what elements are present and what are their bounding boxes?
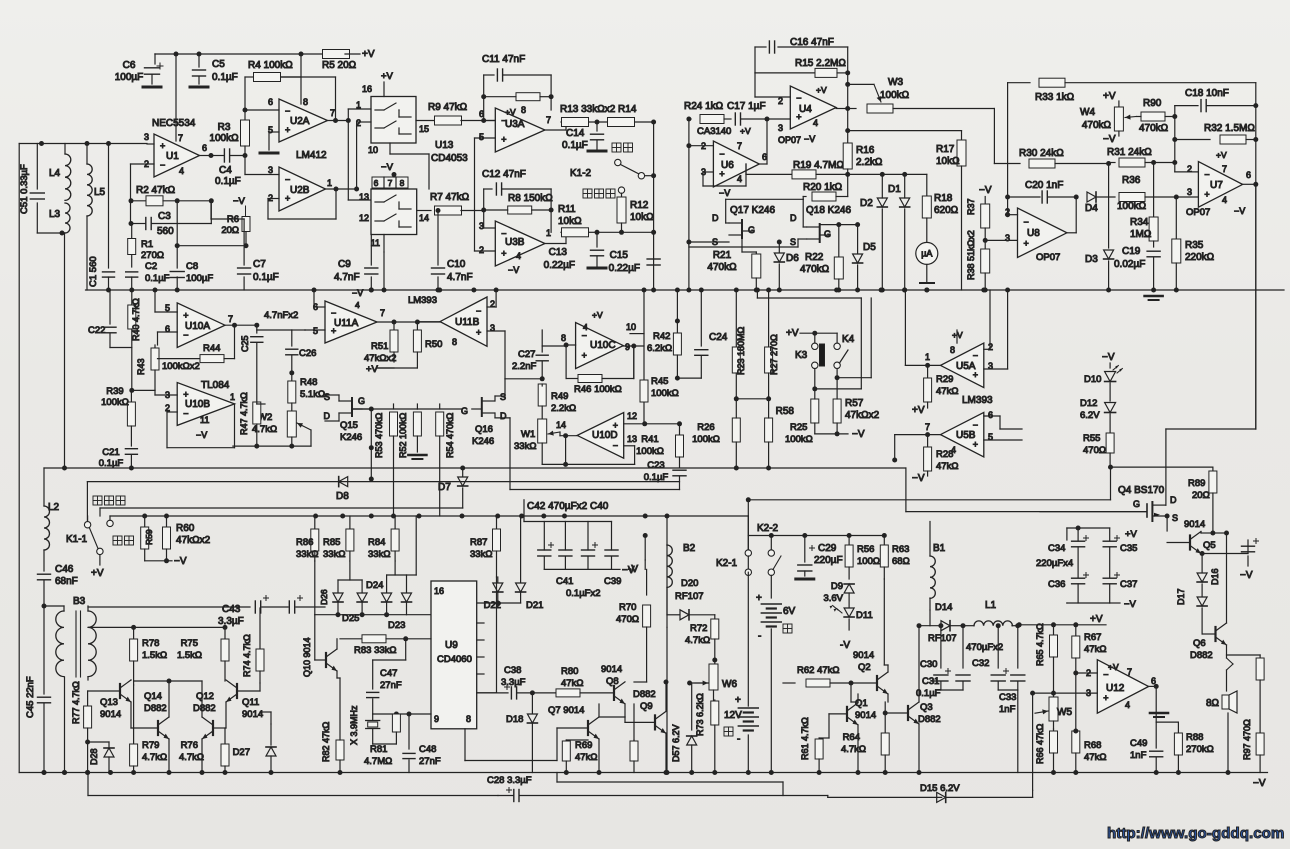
wire [356,122,358,189]
svg-text:D8: D8 [336,491,349,502]
transistor Q2 [876,676,878,690]
svg-text:C28 3.3µF: C28 3.3µF [487,775,532,786]
wire [1201,553,1248,555]
svg-text:K4: K4 [842,334,855,345]
svg-text:R15 2.2MΩ: R15 2.2MΩ [795,58,846,69]
junction [129,288,134,293]
wire [759,163,767,165]
svg-text:0.22µF: 0.22µF [544,260,575,271]
junction [675,288,680,293]
svg-text:12V: 12V [724,710,742,721]
resistor R28 [927,435,929,448]
svg-text:5.1kΩ: 5.1kΩ [300,389,325,400]
svg-text:Q4 BS170: Q4 BS170 [1118,485,1165,496]
svg-text:−: − [719,149,724,159]
svg-text:5: 5 [313,326,318,336]
svg-text:C1 560: C1 560 [88,256,99,287]
capacitor C19 [1147,250,1160,252]
wire [158,331,178,333]
wire [918,626,920,702]
svg-text:7: 7 [1127,667,1132,677]
svg-text:R57: R57 [845,398,864,409]
svg-text:C34: C34 [1048,543,1065,554]
wire [477,602,521,604]
svg-text:W3: W3 [888,77,903,88]
svg-text:Q2: Q2 [858,662,871,673]
svg-text:C23: C23 [647,460,664,471]
resistor R35 [1175,197,1177,240]
resistor R14 [608,118,635,127]
junction [562,514,567,519]
junction [460,514,465,519]
svg-text:3.3µF: 3.3µF [218,616,244,627]
svg-text:0.1µF: 0.1µF [916,688,941,699]
wire [598,739,600,773]
wire squiggle [1226,645,1228,658]
svg-text:+V: +V [592,310,603,320]
svg-text:6.2kΩ: 6.2kΩ [647,343,672,354]
wire [1149,685,1157,687]
wire [836,108,848,110]
wire pin10 [630,333,644,335]
svg-text:4: 4 [355,300,360,310]
svg-text:20Ω: 20Ω [1192,490,1210,501]
svg-text:−: − [1024,217,1029,227]
wire [557,781,783,783]
svg-text:OP07: OP07 [1036,252,1060,263]
svg-text:C49: C49 [1130,738,1147,749]
capacitor C28 [513,790,515,802]
svg-text:620Ω: 620Ω [934,205,959,216]
resistor R56 [848,536,850,546]
svg-text:47kΩx2: 47kΩx2 [364,353,396,364]
resistor R97 [1259,655,1261,658]
svg-text:C10: C10 [447,259,466,270]
wire [167,411,177,413]
junction [879,288,884,293]
resistor R15 [755,72,816,74]
svg-text:R79: R79 [142,740,159,751]
svg-text:Q9: Q9 [640,701,653,712]
wire [64,677,66,773]
resistor R72 [714,615,716,618]
capacitor C38 [477,692,508,694]
resistor R40 [131,290,133,304]
svg-text:R76: R76 [181,740,198,751]
svg-text:33kΩ: 33kΩ [514,441,536,452]
svg-text:7: 7 [1222,164,1227,174]
svg-text:C20 1nF: C20 1nF [1025,180,1063,191]
svg-text:Q11: Q11 [242,697,259,708]
wire [292,329,305,331]
svg-text:11: 11 [371,238,380,248]
svg-text:−V: −V [979,185,992,196]
svg-text:Q12: Q12 [196,691,214,702]
svg-text:C17 1µF: C17 1µF [727,101,766,112]
svg-text:G: G [358,396,365,406]
diode D16 [1197,573,1207,582]
svg-text:R25: R25 [790,422,807,433]
wire [133,681,135,685]
transistor Q16 K246 [481,398,483,416]
wire [483,97,485,121]
svg-text:−: − [285,106,290,116]
svg-text:100kΩ: 100kΩ [101,397,129,408]
svg-text:33kΩ: 33kΩ [323,549,345,560]
svg-text:+V: +V [505,107,516,117]
resistor R39 [130,390,132,402]
resistor R36 [1097,196,1115,198]
svg-text:8Ω: 8Ω [1206,698,1220,709]
svg-text:+V: +V [912,405,925,416]
potentiometer W1 [538,419,547,443]
svg-text:R78: R78 [142,638,159,649]
junction [643,514,648,519]
svg-text:W5: W5 [1057,707,1072,718]
wire [19,143,147,145]
resistor R4 [245,76,259,78]
svg-text:R68: R68 [1084,740,1101,751]
svg-text:8: 8 [950,345,955,355]
svg-text:+: + [613,420,618,430]
svg-text:R47 4.7kΩ: R47 4.7kΩ [239,392,249,435]
wire [175,54,177,141]
net -V [145,560,167,562]
svg-text:L3: L3 [49,209,61,220]
svg-text:−V: −V [233,196,246,207]
wire [690,682,715,684]
wire [984,368,1008,370]
wire [383,252,385,290]
junction [981,288,986,293]
wire [566,344,576,346]
wire [300,54,302,104]
wire U7 to Q4 [1166,428,1256,430]
svg-text:D9: D9 [831,581,843,592]
svg-text:4.7kΩ: 4.7kΩ [142,752,167,763]
svg-text:+: + [183,310,188,320]
resistor R32 [1175,139,1210,141]
wire [87,606,89,611]
svg-text:+: + [1204,189,1209,199]
svg-text:9: 9 [625,342,630,352]
wire [338,413,340,421]
svg-text:Q8: Q8 [606,676,619,687]
svg-text:−V: −V [1124,599,1137,610]
svg-text:+V: +V [1103,91,1116,102]
resistor R7 [417,210,431,212]
svg-text:47kΩ: 47kΩ [1084,752,1106,763]
svg-text:D10: D10 [1084,374,1101,385]
wire [168,681,170,717]
svg-text:3.6V: 3.6V [823,593,843,604]
svg-text:R82 47kΩ: R82 47kΩ [321,721,331,762]
svg-text:4.7MΩ: 4.7MΩ [364,756,392,767]
resistor R29 [927,365,929,379]
svg-text:12: 12 [627,411,637,421]
svg-text:R73 6.2kΩ: R73 6.2kΩ [695,693,705,736]
switch glyph [375,220,384,222]
transistor Q12 [212,721,214,735]
diode D8 [339,477,348,487]
capacitor [543,522,545,551]
potentiometer W5 [1053,698,1055,700]
junction [766,288,771,293]
svg-text:+: + [501,135,506,145]
svg-text:1: 1 [327,178,332,188]
capacitor C18 [1175,105,1198,107]
svg-text:4.7kΩ: 4.7kΩ [179,752,204,763]
svg-text:+V: +V [1108,662,1119,672]
svg-text:+V: +V [381,71,394,82]
svg-text:R11: R11 [558,204,576,215]
wire [64,233,66,468]
resistor R80 [532,692,555,694]
wire main bus [86,289,1285,291]
svg-text:−V: −V [852,429,865,440]
wire [703,171,713,173]
wire [244,156,246,175]
svg-text:U11B: U11B [455,317,480,328]
transistor Q8 [613,686,615,700]
svg-text:K1-2: K1-2 [570,168,592,179]
svg-text:−: − [331,308,336,318]
svg-text:C27: C27 [518,349,535,360]
svg-text:LM412: LM412 [296,150,327,161]
wire [225,324,257,326]
resistor R60 [166,516,168,526]
svg-text:U11A: U11A [334,318,359,329]
svg-text:16: 16 [434,586,444,596]
svg-text:9: 9 [434,714,439,724]
junction [541,514,546,519]
diode D1 [904,174,906,198]
wire [993,109,995,164]
svg-text:R88: R88 [1186,732,1203,743]
resistor R46 [565,345,567,379]
capacitor C10 [437,211,439,266]
svg-text:47kΩ: 47kΩ [575,752,597,763]
svg-text:3: 3 [1005,233,1010,243]
wire [373,713,431,715]
svg-text:−: − [1204,169,1209,179]
net -V [815,433,848,435]
wire [624,445,635,447]
svg-text:4.7kΩ: 4.7kΩ [252,424,277,435]
wire [109,516,111,520]
resistor R8 [481,208,486,213]
svg-text:R8 150kΩ: R8 150kΩ [508,193,553,204]
wire [87,677,89,680]
svg-text:D24: D24 [366,580,383,591]
svg-text:0.1µF: 0.1µF [99,458,124,469]
svg-text:6: 6 [988,410,993,420]
capacitor C36 [1072,577,1085,579]
capacitor C25 [256,325,258,333]
svg-text:R4 100kΩ: R4 100kΩ [248,60,293,71]
diode D57 [691,683,693,730]
svg-text:R43: R43 [136,358,146,375]
svg-text:U9: U9 [445,640,458,651]
capacitor C2 [126,271,138,273]
svg-text:C31: C31 [922,676,939,687]
resistor R37 [981,204,990,228]
op-amp U10D [577,413,624,459]
svg-text:33kΩ: 33kΩ [296,549,318,560]
wire [905,364,940,366]
resistor R2 [131,200,146,202]
svg-text:U4: U4 [799,104,812,115]
wire [348,199,371,201]
svg-text:560: 560 [157,226,174,237]
svg-text:R90: R90 [1143,98,1162,109]
svg-text:C41: C41 [556,576,573,587]
svg-text:C35: C35 [1120,543,1137,554]
wire [349,561,351,580]
svg-text:0.1µFx2: 0.1µFx2 [566,588,601,599]
svg-text:R63: R63 [892,544,909,555]
svg-text:33kΩ: 33kΩ [470,549,492,560]
svg-text:C18 10nF: C18 10nF [1185,88,1229,99]
wire [494,413,496,418]
inductor L4 [64,144,66,155]
wire bottom bus [19,772,1267,774]
svg-text:CA3140: CA3140 [697,126,731,137]
svg-text:R7 47kΩ: R7 47kΩ [430,192,470,203]
svg-text:D882: D882 [144,703,167,714]
resistor R70 [646,569,648,595]
svg-text:K246: K246 [340,432,362,443]
svg-text:U5B: U5B [956,430,976,441]
svg-text:R34: R34 [1130,217,1149,228]
resistor R61 [818,738,820,740]
wire [483,210,485,228]
diode D17 [1197,597,1207,606]
op-amp U3A [495,108,545,152]
capacitor C21 [125,448,137,450]
svg-text:100Ω: 100Ω [857,556,880,567]
resistor R62 [783,682,795,684]
wire [213,727,226,729]
svg-text:6: 6 [268,97,273,107]
wire [335,77,337,121]
capacitor C33 [1017,626,1019,668]
svg-text:R84: R84 [368,537,385,548]
svg-text:Q18 K246: Q18 K246 [806,205,851,216]
svg-text:C45 22nF: C45 22nF [25,676,36,718]
svg-text:47kΩ: 47kΩ [936,386,958,397]
wire [550,97,552,110]
svg-text:U5A: U5A [956,361,976,372]
resistor R34 [1153,163,1155,219]
svg-text:6.2V: 6.2V [1080,410,1100,421]
svg-text:D15 6.2V: D15 6.2V [920,783,960,794]
svg-text:C7: C7 [253,259,266,270]
diode D5 [857,225,859,253]
wire [464,729,466,761]
wire [828,796,942,798]
ic U13 box2 [371,189,417,235]
svg-text:D: D [1170,495,1177,505]
svg-text:R97 470Ω: R97 470Ω [1242,719,1252,760]
svg-text:R35: R35 [1185,240,1204,251]
svg-text:R31 24kΩ: R31 24kΩ [1107,147,1152,158]
wire [1167,542,1190,544]
resistor R86 [314,516,316,528]
wire rail [748,535,884,537]
svg-text:4.7nF: 4.7nF [334,272,360,283]
capacitor C4 [211,155,224,157]
svg-text:K2-2: K2-2 [757,523,779,534]
svg-text:Q5: Q5 [1203,540,1216,551]
svg-text:R89: R89 [1188,478,1205,489]
svg-text:OP07: OP07 [1186,207,1210,218]
resistor R63 [883,536,885,546]
svg-text:6: 6 [374,178,379,188]
wire [18,144,20,773]
wire [37,232,65,234]
op-amp U4 [790,86,836,129]
svg-text:R29: R29 [936,374,953,385]
svg-text:−V: −V [352,288,363,298]
svg-text:Q3: Q3 [920,702,933,713]
svg-text:R9 47kΩ: R9 47kΩ [428,102,468,113]
resistor R51 [393,322,395,330]
diode D4 [1087,192,1096,202]
svg-text:−: − [973,351,978,361]
svg-text:D1: D1 [888,184,901,195]
svg-text:C11 47nF: C11 47nF [482,54,525,65]
transistor Q11 [236,684,238,698]
resistor R75 [224,627,226,638]
svg-text:R65 4.7kΩ: R65 4.7kΩ [1035,623,1045,666]
junction [153,288,158,293]
transistor Q5 [1189,536,1191,550]
svg-text:7: 7 [178,133,183,143]
junction [924,288,929,293]
wire [155,311,177,313]
svg-text:R13 33kΩx2 R14: R13 33kΩx2 R14 [560,104,637,115]
svg-text:C30: C30 [920,659,937,670]
resistor R24 [689,118,691,120]
wire [510,489,680,491]
svg-text:−V: −V [1102,352,1115,363]
svg-text:C39: C39 [604,576,621,587]
wire [415,516,417,575]
svg-text:C3: C3 [158,211,171,222]
svg-text:C48: C48 [419,744,436,755]
svg-text:U10D: U10D [592,430,618,441]
wire [44,467,906,469]
svg-text:1MΩ: 1MΩ [1130,229,1152,240]
wire [563,433,568,438]
svg-text:D12: D12 [1080,398,1097,409]
svg-text:+: + [1024,239,1029,249]
op-amp U11A [325,301,377,343]
svg-text:U10B: U10B [185,399,210,410]
battery 6V [770,575,772,598]
svg-text:6: 6 [202,143,207,153]
svg-text:R22: R22 [805,252,824,263]
diode D18 [530,690,535,695]
wire [523,500,525,522]
svg-text:6V: 6V [783,606,796,617]
svg-text:R59: R59 [144,529,154,545]
svg-text:27nF: 27nF [380,680,402,691]
resistor R64 [884,702,886,733]
svg-text:U10A: U10A [185,321,210,332]
svg-text:4: 4 [737,174,742,184]
